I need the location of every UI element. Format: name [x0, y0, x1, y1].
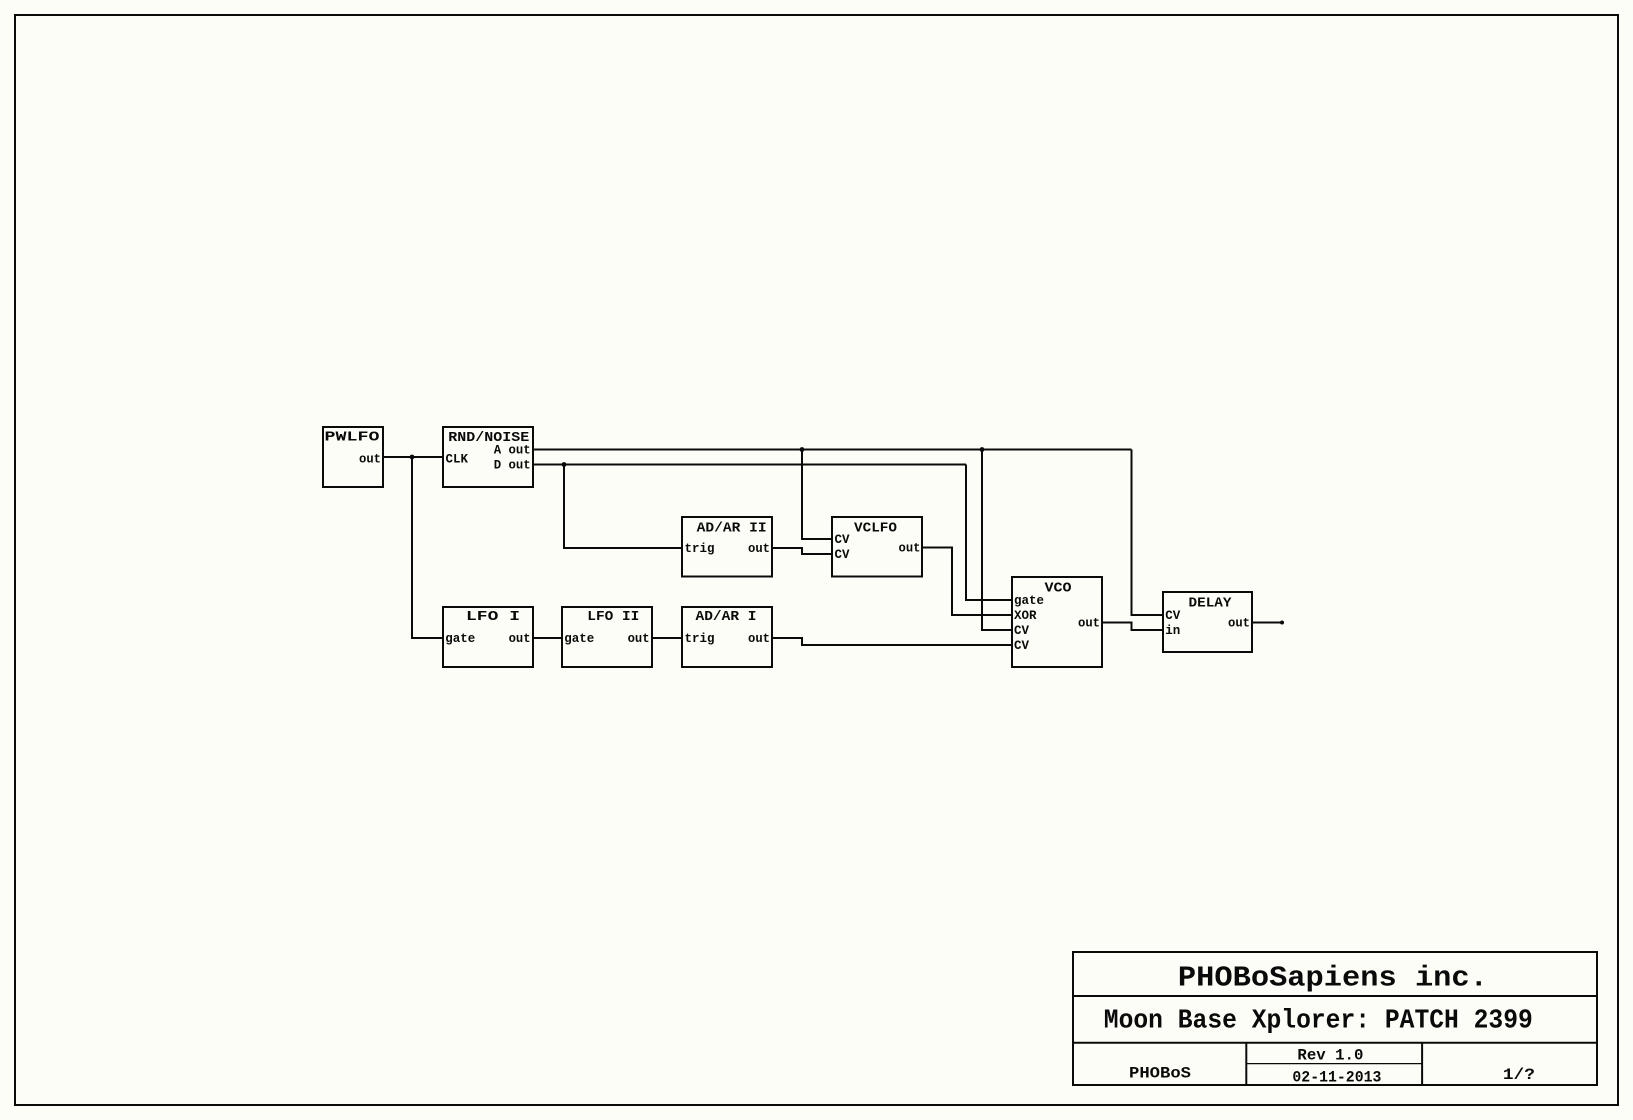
- svg-text:AD/AR I: AD/AR I: [696, 609, 757, 625]
- block DELAY: [1163, 592, 1252, 652]
- svg-text:02-11-2013: 02-11-2013: [1292, 1068, 1381, 1086]
- wire VCLFO.out to VCO.XOR: [922, 548, 1012, 616]
- svg-text:CV: CV: [835, 533, 851, 547]
- wire AD/AR I.out to VCO.CV2: [772, 638, 1012, 645]
- svg-text:Rev 1.0: Rev 1.0: [1297, 1047, 1363, 1065]
- svg-text:LFO II: LFO II: [587, 609, 639, 625]
- block VCLFO: [832, 517, 922, 577]
- svg-text:VCO: VCO: [1045, 581, 1072, 597]
- svg-text:AD/AR II: AD/AR II: [697, 521, 767, 537]
- svg-text:out: out: [509, 632, 531, 646]
- wire VCO.out to DELAY.in: [1102, 623, 1163, 631]
- svg-text:out: out: [359, 452, 381, 466]
- block LFO I: [443, 607, 533, 667]
- svg-text:PHOBoSapiens inc.: PHOBoSapiens inc.: [1178, 961, 1488, 994]
- block VCO: [1012, 577, 1102, 667]
- svg-text:CV: CV: [1014, 624, 1030, 638]
- wire RND/NOISE D-out horizontal: [533, 464, 966, 466]
- block AD/AR II: [682, 517, 772, 577]
- wire D-out down to VCO.gate: [966, 465, 1012, 601]
- svg-text:trig: trig: [685, 632, 715, 646]
- title block frame: [1073, 952, 1597, 1085]
- svg-text:out: out: [899, 542, 921, 556]
- block PWLFO: [323, 427, 383, 487]
- node DELAY.out end dot: [1280, 621, 1284, 625]
- svg-text:CLK: CLK: [446, 452, 469, 466]
- svg-text:PHOBoS: PHOBoS: [1129, 1064, 1191, 1082]
- svg-text:out: out: [628, 632, 650, 646]
- svg-text:A out: A out: [494, 444, 531, 458]
- wire A-out down to DELAY.CV: [1132, 450, 1164, 616]
- wire PWLFO.out to RND/NOISE.CLK: [383, 456, 443, 458]
- svg-text:in: in: [1165, 624, 1180, 638]
- node junction D-out at x=564: [562, 462, 567, 467]
- svg-text:CV: CV: [1165, 609, 1181, 623]
- svg-text:out: out: [1228, 617, 1250, 631]
- svg-text:XOR: XOR: [1014, 609, 1037, 623]
- block RND/NOISE: [443, 427, 533, 487]
- svg-text:gate: gate: [1014, 594, 1044, 608]
- wire AD/AR II.out to VCLFO.CV2: [772, 548, 832, 554]
- wire A-out down to VCLFO.CV1: [802, 450, 832, 540]
- wire A-out down to VCO.CV1: [982, 450, 1012, 631]
- svg-text:DELAY: DELAY: [1189, 596, 1233, 612]
- wire LFO I.out to LFO II.gate: [533, 637, 562, 639]
- wire LFO II.out to AD/AR I.trig: [652, 637, 682, 639]
- svg-text:PWLFO: PWLFO: [325, 430, 380, 446]
- wire DELAY.out stub: [1252, 622, 1282, 624]
- svg-text:trig: trig: [685, 542, 715, 556]
- node junction A-out at x=802: [800, 447, 805, 452]
- block AD/AR I: [682, 607, 772, 667]
- svg-text:out: out: [748, 542, 770, 556]
- svg-text:CV: CV: [1014, 639, 1030, 653]
- node junction A-out at x=982: [980, 447, 985, 452]
- wire D-out down to AD/AR II.trig: [564, 465, 682, 549]
- svg-text:out: out: [1078, 617, 1100, 631]
- svg-text:gate: gate: [564, 632, 594, 646]
- svg-text:D out: D out: [494, 459, 531, 473]
- svg-text:LFO I: LFO I: [466, 609, 520, 625]
- node junction on CLK net: [410, 455, 415, 460]
- block LFO II: [562, 607, 652, 667]
- svg-text:gate: gate: [445, 632, 475, 646]
- svg-text:Moon Base Xplorer: PATCH 2399: Moon Base Xplorer: PATCH 2399: [1104, 1007, 1533, 1037]
- svg-text:CV: CV: [835, 548, 851, 562]
- wire junction down to LFO I.gate: [412, 457, 443, 638]
- svg-text:1/?: 1/?: [1503, 1066, 1535, 1084]
- svg-text:out: out: [748, 632, 770, 646]
- svg-text:VCLFO: VCLFO: [854, 521, 897, 537]
- wire RND/NOISE A-out horizontal bus: [533, 449, 1132, 451]
